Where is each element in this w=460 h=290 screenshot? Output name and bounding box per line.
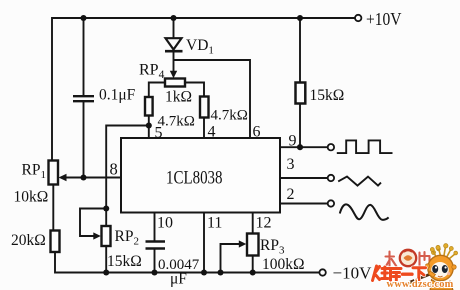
wire pin 3 out	[280, 177, 328, 179]
junction dot pin5 node	[146, 122, 152, 128]
svg-text:www.dzsc.com: www.dzsc.com	[387, 279, 454, 290]
junction dot rail-cap	[80, 15, 86, 21]
wire RP2 wiper feedback	[80, 209, 106, 237]
junction dot rail-cap2	[151, 269, 157, 275]
terminal -10V	[319, 269, 325, 275]
wire diode to RP4	[173, 52, 175, 73]
watermark gold sparks	[432, 247, 441, 261]
wire pin 2 out	[280, 203, 328, 205]
waveform sine wave	[340, 204, 389, 219]
wire cap branch from rail	[83, 18, 85, 95]
svg-text:0.1μF: 0.1μF	[99, 87, 136, 104]
terminal +10V	[355, 15, 361, 21]
wire 15k to pin9	[299, 105, 301, 148]
resistor 4.7k left body	[145, 97, 153, 116]
wire RP4 right lead	[185, 83, 204, 97]
watermark mascot	[403, 244, 458, 290]
potentiometer RP4 body	[165, 79, 185, 87]
junction dot rail-RP3wiper	[217, 269, 223, 275]
wire pin 11	[203, 213, 205, 273]
mascot pen	[407, 273, 434, 284]
svg-text:10: 10	[157, 215, 173, 232]
svg-text:12: 12	[256, 215, 272, 232]
wire RP2 to rail	[105, 246, 107, 273]
resistor RP1 body	[49, 161, 59, 185]
svg-text:15kΩ: 15kΩ	[107, 253, 142, 270]
diode VD1	[166, 38, 182, 49]
wire 15k branch	[299, 18, 301, 83]
mascot crown	[433, 247, 456, 259]
resistor 4.7k right body	[200, 97, 209, 118]
wire pin 8	[63, 177, 121, 179]
resistor 15k body	[296, 83, 306, 104]
svg-text:6: 6	[253, 124, 261, 141]
wire top +10V rail	[52, 18, 355, 161]
svg-text:4: 4	[208, 124, 216, 141]
svg-text:3: 3	[287, 156, 295, 173]
watermark zhaochipian text	[386, 252, 430, 267]
arrowhead RP1 wiper	[59, 174, 67, 181]
svg-text:100kΩ: 100kΩ	[262, 256, 305, 273]
junction dot rail-pin11	[201, 269, 207, 275]
wire pin 5	[148, 116, 150, 139]
svg-text:1kΩ: 1kΩ	[165, 89, 192, 106]
wire pin 12	[252, 213, 254, 234]
potentiometer RP3 body	[247, 234, 259, 256]
junction dot pin9 node	[297, 144, 303, 150]
wire diode branch	[173, 18, 175, 38]
wire RP3 to rail	[252, 256, 254, 273]
svg-text:20kΩ: 20kΩ	[11, 232, 46, 249]
terminal pin2	[328, 200, 334, 206]
waveform square wave	[337, 140, 393, 153]
svg-text:8: 8	[110, 160, 118, 179]
junction dot rail-diode	[170, 15, 176, 21]
svg-text:μF: μF	[170, 271, 187, 288]
wire pin 10	[154, 213, 156, 242]
wire bottom -10V rail	[55, 252, 319, 273]
svg-text:−10V: −10V	[333, 264, 373, 283]
watermark weiku yixia text	[373, 266, 426, 281]
watermark badge	[400, 250, 416, 266]
resistor 20k body	[51, 231, 60, 253]
IC U1 1CL8038 box	[121, 138, 280, 213]
svg-text:11: 11	[207, 215, 222, 232]
wire RP3 wiper	[221, 244, 241, 273]
junction dot rail-RP2	[103, 269, 109, 275]
wire pin5 node to RP2	[106, 126, 149, 227]
svg-text:15kΩ: 15kΩ	[310, 87, 345, 104]
potentiometer RP2 body	[102, 226, 111, 246]
svg-text:+10V: +10V	[366, 9, 402, 29]
svg-text:4.7kΩ: 4.7kΩ	[211, 108, 248, 124]
capacitor 0.1uF plates	[73, 96, 94, 101]
svg-text:2: 2	[287, 186, 295, 203]
svg-text:10kΩ: 10kΩ	[14, 189, 49, 206]
svg-text:9: 9	[289, 133, 297, 150]
wire cap2 to rail	[154, 249, 156, 273]
arrowhead RP4 wiper	[170, 71, 177, 79]
mascot head	[428, 255, 453, 280]
svg-text:4.7kΩ: 4.7kΩ	[158, 114, 195, 130]
wire to pin 6	[174, 60, 251, 138]
arrowhead RP2 wiper	[93, 232, 101, 239]
junction dot RP2 top	[103, 205, 109, 211]
wire pin 9 out	[280, 146, 328, 148]
wire cap to pin8 node	[83, 102, 85, 178]
junction dot rail-RP3	[250, 269, 256, 275]
waveform triangle wave	[338, 177, 381, 186]
svg-text:5: 5	[155, 125, 163, 142]
arrowhead RP3 wiper	[239, 240, 247, 247]
wire RP4 left lead	[149, 83, 165, 98]
terminal pin3	[328, 175, 334, 181]
wire RP1 to 20k	[52, 185, 54, 231]
junction dot rail-15k	[297, 15, 303, 21]
capacitor 0.0047uF plates	[146, 242, 166, 249]
mascot body	[430, 280, 453, 290]
terminal pin9	[328, 144, 334, 150]
wire pin 4	[203, 118, 205, 139]
junction dot pin8 node	[80, 174, 86, 180]
svg-text:1CL8038: 1CL8038	[166, 168, 223, 189]
